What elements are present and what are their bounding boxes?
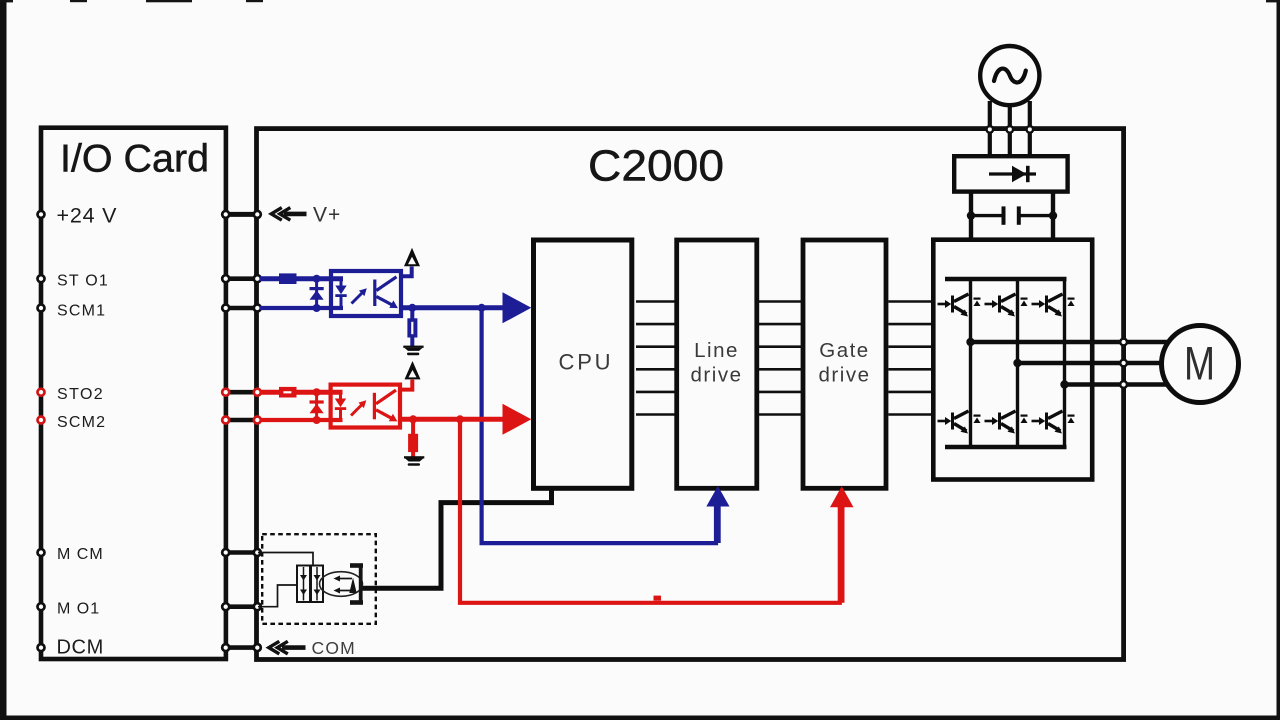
node DC link right bbox=[1049, 211, 1057, 219]
inverter module box bbox=[933, 240, 1092, 480]
node blue output junction 2 bbox=[478, 304, 486, 312]
node SCM1 junction bbox=[313, 304, 321, 312]
diode D1 across LED bbox=[310, 279, 324, 308]
COM arrow chevrons bbox=[269, 641, 288, 654]
terminal phase V bbox=[1120, 360, 1127, 367]
node phase W tap bbox=[1060, 380, 1068, 388]
opto U2 LED bbox=[335, 392, 346, 420]
terminal MCM right bbox=[254, 549, 261, 556]
IGBT Q5 bbox=[985, 411, 1028, 434]
DC link left wire bbox=[969, 192, 973, 242]
wire CPU bottom to output opto bbox=[361, 487, 552, 588]
AC sine symbol bbox=[994, 69, 1026, 83]
opto U2 emitter arrowhead bbox=[389, 414, 398, 422]
bus lines Line drive to Gate drive bbox=[759, 302, 803, 415]
terminal DCM mid bbox=[222, 644, 229, 651]
opto U1 emitter arrowhead bbox=[389, 300, 398, 308]
opto-coupler U2 box bbox=[331, 385, 400, 428]
node blue output junction 1 bbox=[408, 304, 416, 312]
rectifier diode bbox=[989, 172, 1036, 175]
STO2 red input wire bbox=[260, 390, 343, 395]
opto U2 phototransistor bbox=[373, 390, 396, 420]
svg-text:Gate: Gate bbox=[819, 339, 869, 362]
terminal MCM left bbox=[38, 549, 45, 556]
wire red feedback to Gate drive bbox=[460, 419, 840, 603]
terminal STO2 mid red bbox=[222, 389, 229, 396]
wire STO2 row link bbox=[226, 390, 258, 395]
terminal MO1 right bbox=[254, 603, 261, 610]
motor M circle bbox=[1162, 326, 1239, 403]
svg-text:CPU: CPU bbox=[559, 350, 614, 375]
terminal +24V right bbox=[254, 211, 261, 218]
terminal STO2 right red bbox=[254, 389, 261, 396]
AC source wires bbox=[990, 101, 1030, 158]
inverter leg 3 wire bbox=[1063, 279, 1066, 447]
IGBT Q6 bbox=[1032, 411, 1075, 434]
I/O Card box bbox=[41, 128, 226, 659]
wire MO1 row link bbox=[226, 604, 258, 609]
wire blue feedback to Line drive bbox=[482, 308, 716, 543]
node phase V tap bbox=[1013, 359, 1021, 367]
arrow blue into Line drive bbox=[706, 486, 729, 507]
wire MCM to photocoupler bbox=[258, 553, 313, 567]
svg-text:+24 V: +24 V bbox=[57, 203, 118, 227]
inverter top bus bbox=[945, 277, 1067, 282]
Gate drive box bbox=[803, 240, 886, 488]
terminal +24V left bbox=[38, 211, 45, 218]
node phase U tap bbox=[966, 338, 974, 346]
output relay dashed box bbox=[262, 534, 376, 624]
svg-text:M O1: M O1 bbox=[57, 601, 100, 618]
node STO1 junction bbox=[313, 275, 321, 283]
photocoupler ellipse bbox=[320, 572, 363, 597]
svg-text:SCM2: SCM2 bbox=[57, 414, 106, 431]
terminal phase U bbox=[1120, 339, 1127, 346]
SCM2 red return wire bbox=[260, 418, 343, 422]
opto U1 phototransistor bbox=[373, 277, 396, 307]
arrow red into Gate drive bbox=[830, 486, 854, 507]
node SCM2 junction bbox=[313, 416, 321, 424]
terminal STO1 left bbox=[38, 275, 45, 282]
terminal AC phase 1 bbox=[987, 126, 994, 133]
svg-text:drive: drive bbox=[819, 364, 871, 387]
wire resistor R2 to ground bbox=[410, 338, 414, 347]
terminal +24V mid bbox=[222, 211, 229, 218]
terminal SCM2 mid red bbox=[222, 417, 229, 424]
terminal STO2 left red bbox=[38, 389, 45, 396]
V+ arrow line bbox=[284, 212, 307, 217]
resistor R-STO2 bbox=[279, 387, 297, 398]
resistor R4 pulldown bbox=[408, 434, 418, 452]
svg-text:DCM: DCM bbox=[57, 637, 104, 659]
frame right bar bbox=[1277, 0, 1280, 720]
ground (red channel) bbox=[404, 456, 424, 466]
terminal MO1 left bbox=[38, 603, 45, 610]
arrow blue into CPU bbox=[503, 292, 532, 323]
terminal AC phase 3 bbox=[1027, 126, 1034, 133]
photocoupler light arrows bbox=[337, 579, 352, 591]
resistor R-STO1 bbox=[279, 273, 297, 284]
CPU box bbox=[534, 240, 632, 488]
photocoupler input diode blocks bbox=[297, 566, 323, 603]
phase V wire to motor bbox=[1018, 361, 1176, 365]
red collector stub to V+ bbox=[399, 380, 413, 390]
terminal DCM right bbox=[254, 644, 261, 651]
svg-text:Line: Line bbox=[694, 339, 739, 362]
terminal AC phase 2 bbox=[1007, 126, 1014, 133]
frame left bar bbox=[0, 0, 7, 720]
svg-text:drive: drive bbox=[691, 364, 743, 387]
resistor R2 pulldown bbox=[407, 318, 417, 337]
terminal SCM2 right red bbox=[254, 417, 261, 424]
AC source circle bbox=[980, 46, 1039, 105]
photocoupler output diode bbox=[349, 578, 356, 594]
svg-text:M: M bbox=[1184, 337, 1215, 390]
IGBT Q2 bbox=[985, 294, 1028, 317]
opto U1 light arrow bbox=[352, 291, 365, 304]
photocoupler output bracket bbox=[350, 563, 363, 605]
C2000 box bbox=[257, 129, 1124, 660]
wire DCM row link bbox=[226, 645, 258, 650]
terminal SCM1 mid bbox=[222, 305, 229, 312]
svg-text:SCM1: SCM1 bbox=[57, 303, 106, 320]
terminal SCM1 right bbox=[254, 305, 261, 312]
wire SCM1 row link bbox=[226, 306, 258, 311]
capacitor C1 bbox=[971, 214, 1003, 217]
terminal STO1 right bbox=[254, 275, 261, 282]
svg-text:C2000: C2000 bbox=[588, 141, 724, 190]
V+ pull-up arrow (blue channel) bbox=[404, 248, 420, 266]
IGBT Q1 bbox=[938, 294, 981, 317]
red output wire to CPU bbox=[399, 417, 505, 422]
svg-text:V+: V+ bbox=[313, 204, 341, 227]
DC link right wire bbox=[1051, 192, 1055, 242]
wire STO1 row link bbox=[226, 276, 258, 281]
Line drive box bbox=[677, 240, 757, 488]
svg-text:I/O Card: I/O Card bbox=[60, 137, 209, 180]
phase W wire to motor bbox=[1065, 382, 1176, 386]
rectifier box bbox=[954, 156, 1067, 191]
terminal MCM mid bbox=[222, 549, 229, 556]
wire junction to pulldown resistor R2 bbox=[410, 308, 414, 319]
frame bottom bar bbox=[0, 716, 1280, 720]
terminal SCM1 left bbox=[38, 305, 45, 312]
wire MCM row link bbox=[226, 550, 258, 555]
red nub on feedback wire bbox=[654, 596, 662, 601]
terminal DCM left bbox=[38, 644, 45, 651]
SCM1 blue return wire bbox=[260, 306, 344, 310]
STO1 blue input wire bbox=[260, 276, 344, 281]
terminal STO1 mid bbox=[222, 275, 229, 282]
inverter leg 1 wire bbox=[969, 279, 972, 447]
frame top dashes bbox=[0, 0, 1280, 2]
wire SCM2 row link bbox=[226, 418, 258, 423]
svg-text:COM: COM bbox=[312, 638, 356, 658]
V+ arrow chevrons bbox=[271, 208, 290, 221]
node red output junction 1 bbox=[409, 415, 417, 423]
IGBT Q4 bbox=[938, 411, 981, 434]
inverter bottom bus bbox=[945, 445, 1067, 450]
node red output junction 2 bbox=[456, 415, 464, 423]
bus lines CPU to Line drive bbox=[636, 302, 675, 415]
wire resistor R4 to ground bbox=[411, 452, 415, 457]
V+ pull-up arrow (red channel) bbox=[405, 361, 421, 379]
terminal SCM2 left red bbox=[38, 417, 45, 424]
wire MO1 to photocoupler bbox=[258, 585, 298, 607]
IGBT Q3 bbox=[1032, 294, 1075, 317]
terminal MO1 mid bbox=[222, 603, 229, 610]
node STO2 junction bbox=[313, 388, 321, 396]
svg-text:STO2: STO2 bbox=[57, 386, 104, 403]
opto U2 light arrow bbox=[351, 403, 364, 416]
svg-text:M CM: M CM bbox=[57, 546, 104, 563]
inverter leg 2 wire bbox=[1016, 279, 1019, 447]
wire junction to pulldown resistor R4 bbox=[411, 419, 415, 434]
opto U1 LED bbox=[335, 279, 346, 308]
opto-coupler U1 box bbox=[331, 271, 401, 316]
terminal phase W bbox=[1120, 381, 1127, 388]
ground (blue channel) bbox=[403, 346, 423, 356]
node DC link left bbox=[967, 211, 975, 219]
blue collector stub to V+ bbox=[399, 267, 412, 277]
svg-text:ST O1: ST O1 bbox=[57, 273, 109, 290]
blue output wire to CPU bbox=[399, 305, 504, 310]
diode D2 across LED bbox=[310, 392, 324, 420]
wire +24V row link bbox=[226, 212, 258, 217]
bus lines Gate drive to inverter bbox=[889, 302, 934, 415]
phase U wire to motor bbox=[971, 340, 1176, 344]
COM arrow line bbox=[282, 645, 306, 650]
arrow red into CPU bbox=[503, 404, 532, 435]
